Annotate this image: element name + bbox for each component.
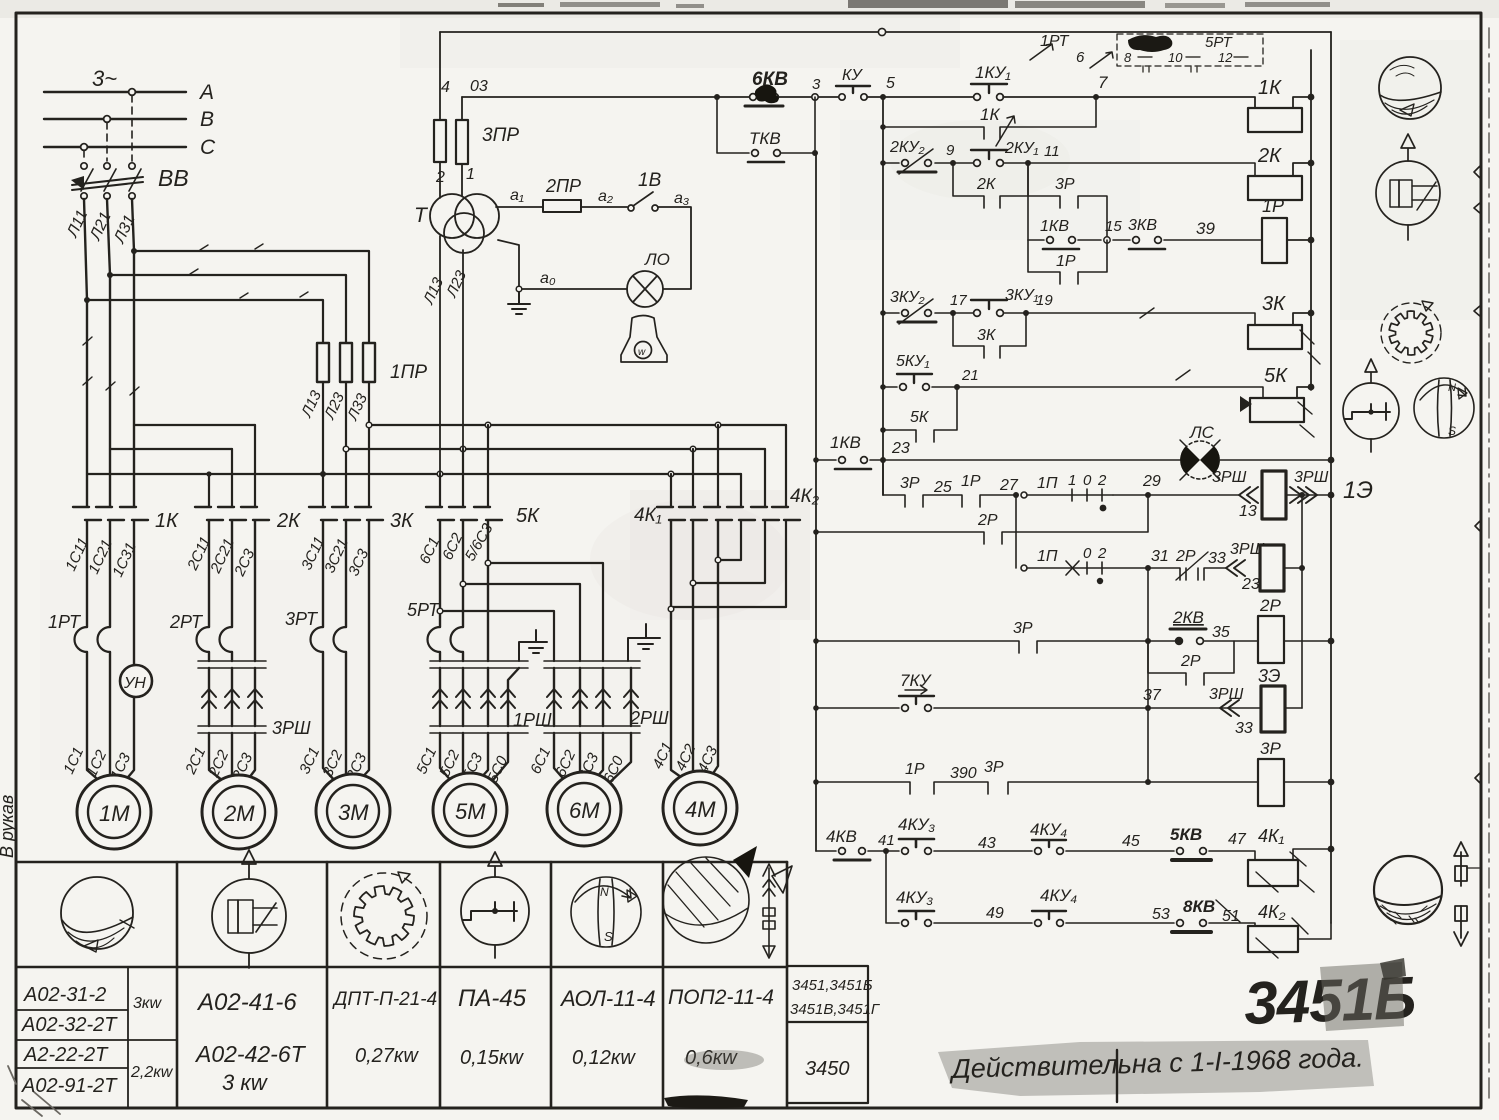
contactor 4K2 main contacts: [727, 507, 800, 520]
svg-text:w: w: [638, 347, 646, 358]
wire L31 vertical: [132, 199, 134, 506]
trip arrow over 1K contact: [996, 116, 1015, 146]
tap junction circles: [437, 560, 491, 614]
svg-text:39: 39: [1196, 219, 1215, 238]
svg-text:5К: 5К: [1264, 365, 1288, 387]
weave jog 4K2 c: [718, 521, 741, 560]
wire fuse to transformer: [440, 162, 462, 198]
wires 4K1 down: [671, 521, 718, 782]
switch BB wedge: [71, 176, 84, 190]
big 3451B: [1243, 964, 1416, 1037]
row 29: [883, 495, 1016, 507]
svg-text:3Э: 3Э: [1258, 666, 1281, 686]
wires 2C11 2C21 2C3: [209, 521, 255, 661]
labels L13 L23 on primary drops: [420, 267, 471, 307]
aux contact 1P branch: [1028, 240, 1107, 284]
svg-text:3КВ: 3КВ: [1128, 217, 1157, 234]
tap 6C1: [440, 611, 554, 661]
wires through 1RSh: [440, 668, 519, 726]
coil 1P (vertical): [1262, 218, 1287, 263]
plug connector 2RSh upper: [544, 661, 640, 668]
coil 1K: [1248, 108, 1302, 132]
labels L13 L23 L33: [298, 387, 372, 423]
label 2RT: [169, 612, 204, 632]
pen stroke vertical: [1116, 1050, 1118, 1102]
thermal contacts 8 10 12: [1124, 50, 1233, 65]
svg-text:2ПР: 2ПР: [545, 176, 581, 196]
svg-text:8: 8: [1124, 50, 1132, 65]
left control bus (lower ladder): [815, 153, 817, 851]
svg-text:5КВ: 5КВ: [1170, 825, 1202, 844]
coil 4K2: [1248, 926, 1298, 952]
svg-text:А: А: [198, 81, 214, 104]
switch 6KV: [745, 94, 783, 106]
fuse 3PR b: [456, 120, 468, 164]
svg-text:0,12кw: 0,12кw: [572, 1047, 636, 1069]
plug connector upper (2M): [198, 661, 266, 668]
svg-text:А2-22-2Т: А2-22-2Т: [23, 1044, 109, 1066]
contactor 3K main contacts: [309, 507, 383, 520]
fuse 2PR: [543, 200, 581, 212]
label 6KV: [752, 69, 788, 90]
weave jog 4K2 a: [671, 521, 786, 607]
wire a3 to lamp: [658, 207, 691, 289]
svg-text:49: 49: [986, 905, 1004, 922]
svg-text:1КУ₁: 1КУ₁: [975, 63, 1011, 82]
chevrons 6M: [547, 689, 638, 708]
table cell1 sublines: [16, 967, 177, 1108]
wires to motor 6M: [554, 733, 631, 786]
label 3K: [390, 510, 414, 532]
svg-text:А02-41-6: А02-41-6: [196, 989, 297, 1016]
wires through plug 2M: [209, 668, 255, 726]
svg-text:ПОП2-11-4: ПОП2-11-4: [668, 986, 774, 1009]
svg-text:0: 0: [1083, 472, 1092, 489]
bottom-left corner scan strokes: [8, 1066, 60, 1116]
svg-text:1П: 1П: [1037, 475, 1058, 492]
weave jog 4K2 b: [693, 521, 765, 583]
wire L11 vertical: [84, 199, 87, 506]
row 1K: button 1KU1: [971, 84, 1007, 100]
wire 3RSh return riser: [1301, 495, 1303, 708]
svg-text:А02-91-2Т: А02-91-2Т: [21, 1075, 118, 1097]
left bus dots: [813, 457, 819, 785]
node 17: [950, 310, 956, 316]
svg-text:21: 21: [961, 367, 979, 384]
lamp LO: [627, 271, 663, 307]
wire to coil 2P: [1204, 640, 1258, 642]
button 4KU4: [1032, 840, 1066, 854]
svg-text:43: 43: [978, 835, 996, 852]
labels 6C1 6C2 5/6C3: [416, 520, 497, 566]
wire: taps to 4K1 contactor: [671, 425, 718, 506]
plug 3RSh wire 33: [1220, 700, 1239, 716]
button 4KU3: [899, 839, 934, 854]
icon: bottom arrows: [1454, 842, 1479, 946]
svg-text:А02-42-6Т: А02-42-6Т: [194, 1041, 307, 1067]
wire 03 riser: [461, 97, 463, 120]
icon: ball (cell1): [61, 877, 134, 952]
model number box: [787, 966, 868, 1103]
main horizontal bus L23 (phase2): [346, 448, 765, 450]
svg-text:ПА-45: ПА-45: [458, 985, 527, 1012]
coil 3P: [1258, 759, 1284, 806]
svg-text:390: 390: [950, 765, 977, 782]
svg-text:3РШ: 3РШ: [1209, 686, 1244, 703]
wire a2: [581, 206, 627, 208]
label 4: [441, 79, 450, 96]
row 3P (641): [816, 641, 1175, 653]
svg-text:3К: 3К: [1262, 293, 1286, 315]
icon: N-S margin: [1414, 378, 1474, 438]
svg-text:N: N: [1448, 382, 1456, 394]
table cell1 text: [21, 984, 118, 1097]
contactor 4K1 main contacts: [657, 507, 732, 520]
icon: pump (cell2): [212, 850, 286, 968]
svg-text:5: 5: [886, 75, 895, 92]
svg-text:ЛО: ЛО: [644, 250, 670, 269]
right bus dots: [1328, 457, 1335, 853]
motor 3M: [316, 774, 390, 848]
svg-text:2,2кw: 2,2кw: [130, 1064, 174, 1081]
wires to motor 3M: [323, 652, 346, 783]
label 03: [470, 78, 488, 95]
wires to plug: [209, 652, 232, 661]
lamp fixture sketch: [621, 316, 667, 363]
thermal 3RT heaters: [311, 627, 347, 652]
node 3: [812, 94, 818, 100]
row 41: [816, 851, 1255, 860]
svg-text:4КУ₃: 4КУ₃: [898, 815, 935, 834]
svg-text:53: 53: [1152, 906, 1170, 923]
label 3RSh (2M plug): [272, 718, 311, 738]
node 5: [880, 94, 886, 100]
icon: globe bottom: [1374, 856, 1442, 924]
TKV branch: [717, 97, 815, 153]
svg-text:33: 33: [1208, 550, 1226, 567]
label 1RT: [48, 612, 82, 632]
svg-text:4КВ: 4КВ: [826, 827, 857, 846]
svg-text:S: S: [1448, 424, 1456, 438]
pencil ticks on 3K coil: [1140, 308, 1320, 364]
svg-text:5КУ₁: 5КУ₁: [896, 353, 930, 370]
svg-text:а₁: а₁: [510, 187, 524, 204]
ground (lamp circuit): [508, 292, 530, 314]
svg-text:N: N: [600, 885, 609, 899]
svg-text:29: 29: [1142, 473, 1161, 490]
contactor 1K main contacts: [73, 507, 148, 520]
pencil marks on 5K coil: [1240, 396, 1252, 412]
svg-text:51: 51: [1222, 908, 1240, 925]
button 4KU3 second: [899, 911, 934, 926]
svg-text:1РТ: 1РТ: [1040, 33, 1070, 50]
junction dot TKV: [812, 150, 818, 156]
svg-text:9: 9: [946, 142, 955, 159]
node C: [81, 144, 88, 151]
svg-text:3450: 3450: [805, 1058, 850, 1080]
wire: dashed drops to switch BB: [84, 95, 132, 161]
fuse 3PR a: [434, 120, 446, 162]
row 390 (782): [816, 782, 1258, 794]
button 7KU: [899, 686, 934, 711]
phase line A: [44, 91, 186, 93]
node 37: [1145, 705, 1151, 711]
svg-text:3К: 3К: [390, 510, 414, 532]
junction a0: [516, 286, 522, 292]
svg-text:3М: 3М: [338, 800, 369, 825]
transformer T: [430, 194, 499, 253]
label 2RSh: [629, 708, 669, 728]
svg-text:1КВ: 1КВ: [830, 433, 861, 452]
lamp LS: [1180, 440, 1220, 480]
wire primary L13 drop: [439, 236, 441, 474]
svg-text:2К: 2К: [976, 176, 997, 193]
wire: feeds to 4K2 contactor: [741, 425, 786, 506]
switch BB pole circles bottom: [81, 193, 135, 199]
button 4KU4 second: [1032, 911, 1066, 926]
svg-text:4КУ₃: 4КУ₃: [896, 888, 933, 907]
node 27: [1013, 492, 1019, 498]
thermal 1RT heaters: [75, 627, 111, 652]
aux contact 3K branch: [953, 313, 1026, 358]
table cell2 text: [194, 989, 307, 1095]
svg-text:3~: 3~: [92, 66, 117, 91]
icon: N-S rotor (cell5): [571, 877, 641, 947]
svg-text:45: 45: [1122, 833, 1140, 850]
label 1PR: [390, 362, 427, 383]
svg-text:1К: 1К: [1258, 77, 1282, 99]
coil return bus: [1310, 50, 1312, 390]
label 3~: [92, 66, 117, 91]
svg-text:1В: 1В: [638, 170, 662, 191]
labels 2 and 1: [435, 166, 475, 186]
button 2KU2 (stop): [898, 149, 936, 174]
button 2KU1: [971, 150, 1007, 166]
wire to node 29: [1113, 494, 1240, 496]
tap 6C3: [488, 563, 603, 661]
svg-text:1ПР: 1ПР: [390, 362, 427, 383]
svg-text:2РТ: 2РТ: [169, 612, 204, 632]
svg-text:12: 12: [1218, 50, 1233, 65]
main horizontal bus L13 (phase1): [87, 473, 741, 475]
svg-text:0,15кw: 0,15кw: [460, 1047, 524, 1069]
svg-text:35: 35: [1212, 624, 1230, 641]
switch 2KV: [1170, 629, 1206, 644]
svg-text:3РТ: 3РТ: [285, 609, 319, 629]
svg-text:2Р: 2Р: [1175, 548, 1196, 565]
icon: sketch ball (cell6): [663, 857, 749, 943]
svg-text:1: 1: [1068, 472, 1076, 489]
row 2K: [883, 163, 1255, 176]
limit 3KV: [1129, 237, 1165, 249]
svg-text:В: В: [200, 108, 214, 131]
svg-text:А02-31-2: А02-31-2: [23, 984, 106, 1006]
svg-text:3451В,3451Г: 3451В,3451Г: [790, 1001, 881, 1018]
2P bypass branch: [1148, 641, 1234, 685]
node 11: [1025, 160, 1031, 166]
main horizontal bus L33 (phase3): [369, 424, 786, 426]
wire L31 to 2K: [134, 424, 255, 426]
junction dot: [714, 94, 720, 100]
node 23: [880, 457, 886, 463]
handwriting date note: [948, 1043, 1364, 1085]
svg-text:1Р: 1Р: [961, 473, 981, 490]
svg-text:31: 31: [1151, 548, 1169, 565]
label 3RT: [285, 609, 319, 629]
motor 5M: [433, 773, 507, 847]
node A: [129, 89, 136, 96]
svg-text:Т: Т: [414, 204, 429, 227]
svg-text:2КУ₁: 2КУ₁: [1004, 140, 1039, 157]
svg-text:5К: 5К: [516, 505, 540, 527]
svg-text:3кw: 3кw: [133, 995, 162, 1012]
svg-text:1КВ: 1КВ: [1040, 218, 1069, 235]
right return bus: [1330, 32, 1332, 923]
svg-text:1Р: 1Р: [1262, 196, 1284, 216]
row 1P: limit 1KV: [1028, 239, 1262, 241]
svg-text:а₃: а₃: [674, 190, 689, 207]
plug 3RSh wire 13: [1239, 487, 1258, 503]
label 1RSh: [513, 710, 552, 730]
svg-text:2: 2: [1097, 545, 1107, 562]
arrows column (cell6): [763, 864, 775, 958]
button 5KU1: [897, 374, 932, 390]
label BB: [158, 165, 189, 191]
svg-text:15: 15: [1105, 218, 1122, 235]
switch BB pole circles top: [81, 163, 135, 169]
1RT trip arrows: [1030, 44, 1113, 68]
label 4K2: [790, 486, 820, 507]
labels A B C: [198, 81, 216, 159]
thermal 5RT heaters: [428, 627, 464, 652]
svg-text:2К: 2К: [276, 510, 301, 532]
rail drop 23 to 29: [882, 460, 884, 495]
svg-text:ДПТ-П-21-4: ДПТ-П-21-4: [332, 989, 437, 1010]
phase line C: [44, 146, 186, 148]
tap 6C2: [463, 584, 580, 661]
svg-text:2М: 2М: [223, 801, 255, 826]
svg-text:3Р: 3Р: [900, 475, 920, 492]
selector 1P position I: [1021, 489, 1113, 501]
label 1E: [1343, 477, 1373, 504]
label 4K1: [634, 505, 662, 526]
svg-text:3Р: 3Р: [984, 759, 1004, 776]
fuse 1PR (three cartridges): [317, 343, 375, 382]
switch BB bar: [72, 169, 143, 191]
ground (5M star point): [519, 630, 547, 661]
svg-text:7КУ: 7КУ: [900, 671, 932, 690]
wire primary L23 drop: [462, 250, 464, 449]
node B: [104, 116, 111, 123]
label LO: [644, 250, 670, 269]
thermal relays dashed box 1RT-5RT: [1117, 34, 1263, 66]
plug connector 1RSh upper: [430, 661, 528, 668]
drop node11 to row 1KV: [1027, 163, 1029, 240]
svg-text:17: 17: [950, 292, 967, 309]
label 2K: [276, 510, 301, 532]
svg-text:1Р: 1Р: [905, 761, 925, 778]
row 49: [886, 851, 1255, 926]
svg-text:1Р: 1Р: [1056, 253, 1076, 270]
svg-text:3Р: 3Р: [1055, 176, 1075, 193]
grey band: [938, 1040, 1374, 1096]
UN device circle: [120, 665, 152, 697]
label 3PR: [482, 125, 519, 146]
wires 3C11 3C21 3C3: [323, 521, 369, 781]
weave junction circles: [668, 557, 721, 612]
svg-text:ТКВ: ТКВ: [749, 129, 781, 148]
svg-text:6: 6: [1076, 49, 1085, 66]
svg-text:13: 13: [1239, 503, 1257, 520]
label 5RT: [407, 600, 441, 620]
coil 3K: [1248, 325, 1302, 349]
svg-text:4КУ₄: 4КУ₄: [1030, 820, 1067, 839]
labels 4C1 4C2 4C3: [649, 740, 721, 776]
svg-text:1: 1: [466, 166, 475, 183]
svg-text:С: С: [200, 136, 216, 159]
wire: feed to fuse 1PR phase2: [110, 275, 346, 343]
svg-text:2КУ₂: 2КУ₂: [889, 139, 925, 156]
svg-text:5РТ: 5РТ: [407, 600, 441, 620]
svg-text:4: 4: [441, 79, 450, 96]
icon: globe top: [1379, 57, 1441, 119]
label T: [414, 204, 429, 227]
contactor 2K main contacts: [195, 507, 269, 520]
node 15: [1104, 237, 1110, 243]
plug connector 2RSh lower: [544, 726, 640, 733]
coil 2P: [1258, 616, 1284, 663]
svg-text:1К: 1К: [980, 105, 1000, 124]
aux contact 2K branch: [953, 163, 1028, 208]
limit 8KV: [1172, 920, 1211, 932]
wires to motor 2M: [209, 733, 255, 784]
wire: taps to 5K contactor: [440, 425, 488, 506]
motor 2M: [202, 775, 276, 849]
svg-text:23: 23: [891, 440, 910, 457]
svg-text:S: S: [604, 929, 613, 944]
row 31: selector 1P position II: [1015, 495, 1017, 568]
label a1: [510, 187, 524, 204]
rail 03: [462, 96, 749, 98]
table frame lines: [16, 862, 787, 1108]
blob over 1RT label: [1128, 35, 1172, 52]
wires through 2RSh: [554, 668, 631, 726]
svg-text:2РШ: 2РШ: [629, 708, 669, 728]
svg-text:КУ: КУ: [842, 67, 863, 84]
svg-text:1РТ: 1РТ: [48, 612, 82, 632]
coil 5K: [1250, 398, 1304, 422]
svg-text:3ПР: 3ПР: [482, 125, 519, 146]
svg-text:4М: 4М: [685, 797, 716, 822]
label: В рукав (rotated, left margin): [0, 795, 17, 858]
phase line B: [44, 118, 186, 120]
table cell6 text: [668, 986, 774, 1069]
svg-text:7: 7: [1098, 73, 1108, 92]
label a2: [598, 188, 613, 205]
aux contact 5K branch: [883, 387, 957, 442]
wire to node 5: [867, 96, 977, 98]
svg-text:2КВ: 2КВ: [1172, 608, 1204, 627]
label a0: [540, 270, 556, 287]
svg-text:а₀: а₀: [540, 270, 556, 287]
wire: fuse outputs down: [323, 382, 369, 506]
motor 4M: [663, 771, 737, 845]
node 19: [1023, 310, 1029, 316]
switch TKV: [748, 150, 784, 162]
label a3: [674, 190, 689, 207]
svg-text:0: 0: [1083, 545, 1092, 562]
svg-text:2Р: 2Р: [977, 512, 998, 529]
